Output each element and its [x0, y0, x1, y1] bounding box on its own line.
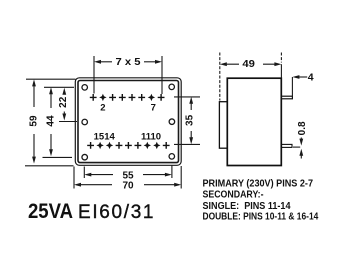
mounting hole bottom-right — [169, 154, 175, 160]
primary pin 7 (star) — [148, 94, 155, 101]
arrowhead 49 left — [220, 62, 227, 66]
arrowhead 22 down — [62, 114, 66, 121]
svg-text:44: 44 — [46, 115, 57, 127]
svg-text:SECONDARY:-: SECONDARY:- — [203, 189, 264, 201]
extension line hole span left — [83, 167, 85, 179]
dimension 0.8 lower tail — [300, 154, 302, 159]
primary pin 2 (star) — [99, 94, 106, 101]
extension line top pin row right — [174, 96, 200, 98]
arrowhead 4 left — [292, 75, 299, 79]
dimension 70 line segments — [76, 184, 179, 186]
dimension 59 line segments — [33, 82, 35, 161]
arrowhead 49 right — [274, 62, 281, 66]
dimension 35 line segments — [190, 100, 192, 143]
mounting hole mid-right — [169, 119, 175, 125]
dimension 0.8 upper tail — [300, 138, 302, 143]
pin 11b cross — [135, 142, 142, 149]
pin 8 cross — [158, 94, 165, 101]
arrowhead 70 right — [174, 183, 181, 187]
extension line depth right (dashed) — [280, 53, 282, 63]
extension line body width right — [180, 166, 182, 189]
svg-text:25VA: 25VA — [28, 200, 73, 223]
svg-text:1110: 1110 — [141, 131, 161, 142]
extension line pin pitch left — [93, 56, 95, 94]
side view bottom pin — [281, 144, 292, 147]
extension line bottom pin row right — [174, 143, 200, 145]
svg-text:4: 4 — [308, 71, 314, 83]
pin 6 cross — [138, 94, 145, 101]
dimension 22 line segments — [63, 91, 65, 118]
pin 3 cross — [109, 94, 116, 101]
dimension 7x5 line right segment — [144, 61, 160, 63]
leader line pin tip vertical — [291, 77, 293, 97]
dimension 7x5 line left segment — [97, 61, 113, 63]
arrowhead 0.8 down — [299, 139, 303, 146]
extension line body width left — [73, 167, 75, 189]
arrowhead 35 up — [189, 97, 193, 104]
arrowhead 7x5 left — [94, 60, 101, 64]
secondary pin 10 (star) — [153, 142, 160, 149]
svg-text:0.8: 0.8 — [297, 121, 308, 135]
pin 5 cross — [129, 94, 136, 101]
svg-text:59: 59 — [29, 115, 40, 127]
pin 12 cross — [125, 142, 132, 149]
secondary pin 15 (star) — [96, 142, 103, 149]
pin 1 cross — [90, 94, 97, 101]
secondary pin 11 (star) — [144, 142, 151, 149]
svg-text:EI60/31: EI60/31 — [78, 202, 154, 223]
svg-text:35: 35 — [184, 114, 195, 126]
dimension 49 line segments — [223, 63, 280, 65]
leader line 4 horizontal — [295, 76, 307, 78]
arrowhead 22 up — [62, 88, 66, 95]
arrowhead 0.8 up — [299, 149, 303, 156]
extension line depth right (solid) — [280, 64, 282, 78]
arrowhead 7x5 right — [155, 60, 162, 64]
svg-text:49: 49 — [242, 59, 255, 70]
extension line top hole row — [44, 86, 74, 88]
svg-text:2: 2 — [100, 102, 105, 113]
svg-text:7: 7 — [151, 102, 156, 113]
arrowhead 55 right — [165, 173, 172, 177]
side view top pin — [281, 96, 292, 99]
arrowhead 55 left — [84, 173, 91, 177]
svg-text:7 x 5: 7 x 5 — [116, 57, 141, 68]
extension line hole span right — [171, 165, 173, 178]
side view body outline — [227, 78, 281, 165]
pin 4 cross — [119, 94, 126, 101]
arrowhead 70 left — [74, 183, 81, 187]
secondary pin 14 (star) — [106, 142, 113, 149]
mounting hole top-left — [82, 85, 88, 91]
transformer top-view outer outline — [75, 78, 181, 166]
dimension 44 line segments — [50, 90, 52, 154]
extension line mid hole row — [59, 121, 77, 123]
svg-text:DOUBLE: PINS 10-11 & 16-14: DOUBLE: PINS 10-11 & 16-14 — [203, 210, 319, 222]
arrowhead 44 up — [49, 87, 53, 94]
arrowhead 35 down — [189, 137, 193, 144]
pin thickness reference line — [293, 146, 300, 148]
mounting hole mid-left — [82, 119, 88, 125]
pin 16 cross — [87, 142, 94, 149]
side view core lamination stack — [219, 102, 227, 149]
dimension 55 line segments — [87, 174, 170, 176]
svg-text:22: 22 — [58, 96, 69, 108]
pin 9 cross — [163, 142, 170, 149]
arrowhead 59 up — [32, 79, 36, 86]
transformer top-view inner outline — [78, 81, 179, 163]
svg-text:1514: 1514 — [94, 131, 116, 142]
mounting hole bottom-left — [82, 154, 88, 160]
extension line bottom edge left — [25, 165, 74, 167]
extension line pin pitch right — [161, 56, 163, 94]
extension line depth left (dashed) — [219, 53, 221, 101]
svg-text:70: 70 — [122, 180, 134, 191]
extension line bottom hole row — [43, 156, 73, 158]
extension line top edge left — [26, 78, 76, 80]
mounting hole top-right — [169, 84, 175, 90]
arrowhead 59 down — [32, 157, 36, 164]
arrowhead 44 down — [49, 149, 53, 156]
pin 13 cross — [116, 142, 123, 149]
